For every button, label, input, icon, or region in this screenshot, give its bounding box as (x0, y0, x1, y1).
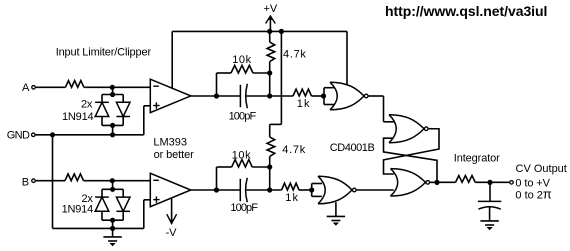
svg-text:4.7k: 4.7k (282, 144, 306, 156)
svg-text:1N914: 1N914 (62, 111, 93, 123)
svg-text:A: A (22, 82, 30, 94)
svg-text:Input Limiter/Clipper: Input Limiter/Clipper (56, 46, 152, 58)
svg-text:10k: 10k (232, 150, 252, 162)
svg-text:B: B (22, 176, 29, 188)
svg-text:100pF: 100pF (229, 110, 257, 122)
svg-text:4.7k: 4.7k (283, 49, 307, 61)
svg-text:0 to 2π: 0 to 2π (515, 186, 552, 201)
svg-text:1k: 1k (285, 192, 299, 204)
svg-text:CD4001B: CD4001B (330, 142, 375, 154)
svg-text:GND: GND (7, 130, 30, 142)
svg-text:1k: 1k (297, 98, 311, 110)
svg-text:LM393: LM393 (153, 136, 187, 148)
svg-text:-V: -V (166, 227, 178, 239)
svg-text:100pF: 100pF (230, 202, 258, 214)
svg-text:CV Output: CV Output (516, 163, 567, 175)
svg-text:10k: 10k (232, 54, 252, 66)
svg-text:1N914: 1N914 (62, 204, 93, 216)
svg-text:Integrator: Integrator (454, 152, 500, 164)
svg-text:2x: 2x (81, 98, 93, 110)
svg-text:http://www.qsl.net/va3iul: http://www.qsl.net/va3iul (385, 3, 547, 19)
svg-text:+V: +V (264, 3, 278, 15)
svg-text:or better: or better (154, 149, 195, 161)
